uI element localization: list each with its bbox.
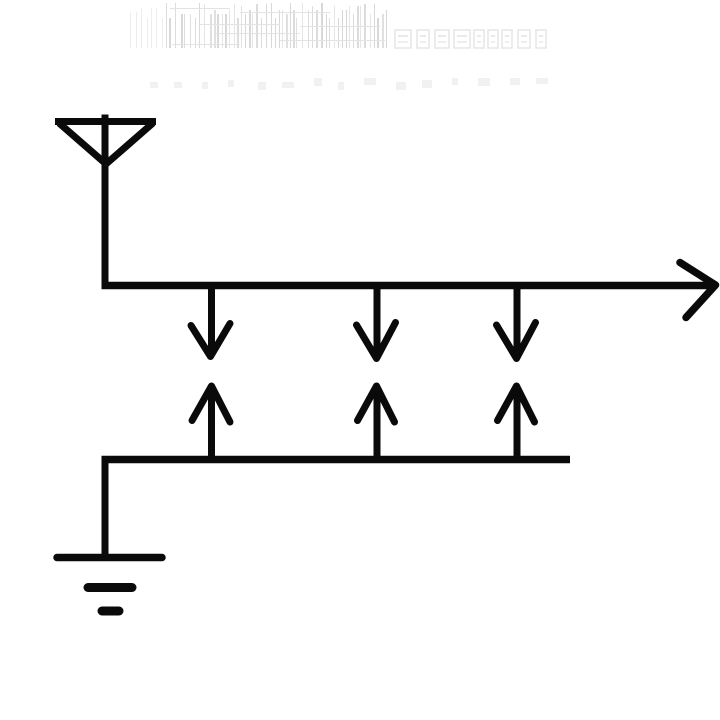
up arrow U3 head: [498, 386, 535, 422]
watermark texture (faint): [130, 3, 548, 90]
up arrow U1 shaft: [208, 388, 215, 460]
up arrow U1 head: [192, 386, 230, 422]
up arrow U2 shaft: [374, 388, 381, 460]
down arrow D3 head: [497, 323, 536, 359]
down arrow D2 shaft: [374, 286, 381, 354]
ground bar 3: [102, 607, 119, 616]
ground bar 1: [57, 554, 162, 562]
wire top bus: [102, 282, 714, 290]
wire bottom bus: [102, 456, 571, 464]
antenna AN1 top bar: [55, 118, 156, 125]
down arrow D1 shaft: [208, 286, 215, 352]
wire ground drop: [102, 456, 109, 556]
antenna AN1 V left arm: [59, 123, 106, 164]
down arrow D2 head: [357, 323, 396, 359]
ground bar 2: [88, 583, 132, 592]
antenna AN1 pole wire: [102, 115, 109, 289]
up arrow U2 head: [358, 386, 395, 422]
down arrow D1 head: [191, 324, 230, 357]
down arrow D3 shaft: [514, 286, 521, 354]
antenna AN1 V right arm: [106, 123, 153, 164]
arrowhead right (output arrow): [680, 263, 716, 318]
up arrow U3 shaft: [514, 388, 521, 460]
